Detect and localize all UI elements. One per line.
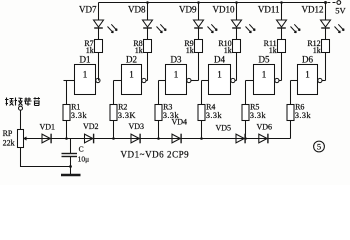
resistor R10 1k (218, 39, 240, 55)
svg-text:VD3: VD3 (129, 122, 145, 131)
svg-text:1k: 1k (313, 46, 321, 55)
svg-text:VD7: VD7 (79, 5, 97, 15)
svg-text:VD6: VD6 (257, 122, 273, 131)
node bus junction (112, 137, 115, 140)
node rail junction (280, 1, 283, 4)
wire input line (113, 81, 115, 139)
svg-text:1: 1 (83, 70, 88, 80)
svg-text:VD1~VD6 2CP9: VD1~VD6 2CP9 (121, 149, 190, 159)
node rail junction (235, 1, 238, 4)
wire output column (198, 53, 200, 81)
svg-text:22k: 22k (3, 139, 15, 148)
wire output column (281, 53, 283, 81)
svg-text:10μ: 10μ (78, 154, 90, 163)
svg-text:1: 1 (305, 70, 310, 80)
node rail corner junction (324, 1, 327, 4)
svg-text:1k: 1k (269, 46, 277, 55)
wire diode chain bus (25, 138, 291, 140)
resistor R5 3.3k (242, 103, 266, 121)
svg-text:5: 5 (317, 142, 321, 152)
inverter gate D4 (202, 55, 237, 95)
svg-text:3.3k: 3.3k (250, 110, 267, 120)
resistor R7 1k (84, 39, 102, 55)
svg-text:VD10: VD10 (213, 5, 235, 15)
resistor R3 3.3k (155, 103, 179, 121)
svg-text:VD4: VD4 (172, 118, 188, 127)
resistor R8 1k (133, 39, 151, 55)
LED VD11 (258, 3, 300, 40)
svg-text:D3: D3 (171, 55, 182, 65)
diode VD3 2CP9 (129, 122, 145, 144)
node rail junction (146, 1, 149, 4)
wire +5V top rail (99, 2, 326, 4)
node rail junction (197, 1, 200, 4)
diode VD1 2CP9 (40, 122, 56, 143)
wire input line (245, 81, 247, 139)
wire output column (98, 53, 100, 81)
wire bus to capacitor (70, 139, 72, 154)
label receiving transducer (Chinese) (5, 97, 40, 106)
svg-text:3.3k: 3.3k (206, 110, 223, 120)
svg-text:3.3K: 3.3K (118, 110, 137, 120)
svg-text:VD2: VD2 (83, 122, 99, 131)
resistor R6 3.3k (287, 103, 311, 121)
wire input line (158, 81, 160, 139)
wire dashed 5V stub (327, 2, 336, 4)
inverter gate D5 (246, 55, 282, 95)
resistor R12 1k (307, 39, 329, 55)
node bus junction (65, 137, 68, 140)
resistor R11 1k (264, 39, 286, 55)
terminal transducer input (19, 106, 23, 110)
svg-text:D6: D6 (302, 55, 313, 65)
wire input line (290, 81, 292, 139)
svg-text:VD11: VD11 (258, 5, 280, 15)
diode VD6 2CP9 (257, 122, 273, 143)
svg-text:3.3k: 3.3k (295, 110, 312, 120)
wire input line (66, 81, 68, 139)
svg-text:VD5: VD5 (216, 123, 232, 132)
diode VD4 2CP9 (172, 118, 188, 144)
LED VD12 (302, 3, 345, 40)
svg-text:C: C (79, 145, 84, 154)
svg-text:1k: 1k (186, 46, 194, 55)
resistor R2 3.3k (110, 103, 136, 121)
svg-text:1: 1 (217, 70, 222, 80)
svg-text:1: 1 (129, 70, 134, 80)
svg-text:VD1: VD1 (40, 122, 56, 131)
svg-text:RP: RP (3, 129, 13, 138)
node bus junction (244, 137, 247, 140)
inverter gate D3 (159, 55, 199, 95)
LED VD7 (79, 3, 117, 40)
resistor R4 3.3k (198, 103, 222, 121)
wire output column (236, 53, 238, 81)
svg-text:1: 1 (262, 70, 267, 80)
inverter gate D2 (114, 55, 148, 95)
wire output column (325, 53, 327, 81)
capacitor C 10u (62, 145, 90, 164)
inverter gate D6 (291, 55, 326, 95)
LED VD9 (179, 3, 217, 40)
node return junction (69, 165, 72, 168)
diode VD2 2CP9 (83, 122, 99, 144)
wire terminal to RP (20, 110, 22, 129)
svg-text:D4: D4 (214, 55, 225, 65)
svg-text:1: 1 (174, 70, 179, 80)
svg-text:D1: D1 (80, 55, 91, 65)
svg-text:D5: D5 (259, 55, 270, 65)
wire input line (201, 81, 203, 139)
resistor R9 1k (184, 39, 202, 55)
terminal 5V supply (337, 1, 341, 5)
svg-text:VD9: VD9 (179, 5, 197, 15)
node bus junction (200, 137, 203, 140)
ground (61, 174, 81, 176)
wire capacitor to ground (70, 157, 72, 175)
LED VD10 (213, 3, 256, 40)
svg-text:D2: D2 (126, 55, 137, 65)
figure number 5 (314, 141, 325, 152)
diode VD5 2CP9 (216, 123, 246, 143)
svg-text:VD8: VD8 (128, 5, 146, 15)
LED VD8 (128, 3, 166, 40)
wire RP bottom return (21, 148, 71, 167)
inverter gate D1 (64, 55, 101, 95)
wire output column (147, 53, 149, 81)
svg-text:5V: 5V (335, 6, 346, 16)
svg-text:3.3k: 3.3k (71, 110, 88, 120)
node bus junction (157, 137, 160, 140)
potentiometer RP 22k (3, 129, 28, 147)
resistor R1 3.3k (63, 103, 87, 121)
svg-text:VD12: VD12 (302, 5, 324, 15)
